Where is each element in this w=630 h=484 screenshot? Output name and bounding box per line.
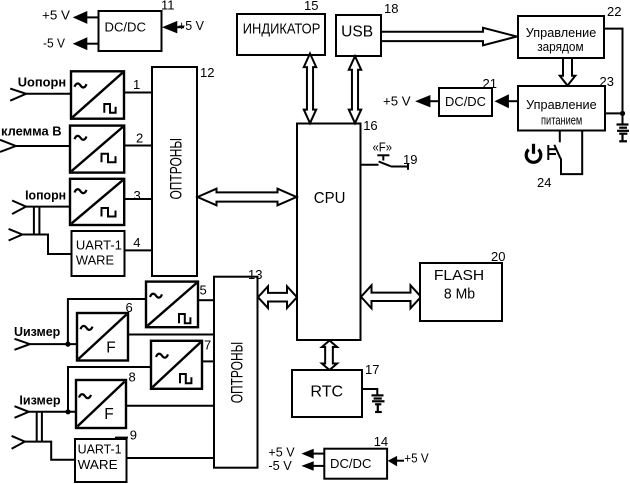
svg-text:DC/DC: DC/DC: [330, 456, 371, 471]
arrow U21 to +5V: [415, 95, 430, 107]
svg-text:21: 21: [483, 76, 497, 91]
svg-text:F: F: [106, 339, 115, 356]
wire Ioporn2 to UART U4: [22, 235, 71, 255]
input arrowhead Iizmer 2: [12, 436, 25, 449]
wire Uoporn to U1: [26, 93, 71, 95]
converter U5 (~ to pulse): [146, 282, 198, 328]
junction node (battery): [620, 111, 625, 116]
svg-text:4: 4: [133, 235, 140, 250]
bus arrow USB-CPU: [349, 56, 361, 123]
input arrowhead Ioporn 2: [9, 229, 23, 241]
svg-text:14: 14: [374, 434, 388, 449]
svg-text:11: 11: [161, 0, 175, 13]
FLASH U20 box: [420, 263, 502, 321]
svg-text:22: 22: [607, 4, 621, 19]
svg-text:20: 20: [491, 249, 505, 264]
converter U8 (~ to F): [76, 380, 126, 428]
wire switch bottom to U23: [561, 131, 582, 175]
svg-text:15: 15: [304, 0, 318, 13]
svg-text:+5 V: +5 V: [42, 7, 70, 22]
converter U6 (~ to F): [77, 313, 128, 361]
wire U23 to U21: [508, 100, 518, 102]
optocouplers U12 box: [152, 67, 197, 276]
hollow arrow U22 to U23: [560, 58, 576, 86]
svg-text:Uопорн: Uопорн: [18, 74, 66, 89]
svg-text:1: 1: [133, 77, 140, 92]
input arrowhead Ioporn 1: [12, 201, 26, 215]
optocouplers U13 box: [214, 277, 258, 468]
svg-text:19: 19: [403, 152, 417, 167]
DC/DC U11 box: [99, 11, 162, 51]
svg-text:5: 5: [200, 282, 207, 297]
svg-text:Iопорн: Iопорн: [25, 188, 66, 203]
wire U6 to optocouplers U13: [128, 334, 214, 336]
svg-text:WARE: WARE: [76, 253, 115, 268]
wire U2 to optocouplers U12: [124, 145, 152, 147]
wire U3 to optocouplers U12: [124, 198, 152, 200]
wire U11 +5V: [87, 16, 100, 18]
svg-text:UART-1: UART-1: [76, 238, 122, 253]
wire U23 to battery node: [605, 112, 623, 114]
svg-text:F: F: [104, 406, 113, 423]
svg-text:ОПТРОНЫ: ОПТРОНЫ: [228, 342, 247, 404]
converter U2 (~ to pulse): [70, 126, 124, 173]
svg-text:17: 17: [365, 362, 379, 377]
svg-text:FLASH: FLASH: [434, 267, 484, 284]
arrow +5V input into U11 right side: [162, 21, 177, 34]
wire Iizmer to U8: [29, 411, 76, 413]
svg-text:UART-1: UART-1: [78, 441, 122, 456]
wire Uizmer to U6: [30, 343, 77, 345]
svg-text:6: 6: [126, 300, 133, 315]
switch SB1 actuator: [548, 145, 556, 160]
svg-text:24: 24: [537, 175, 551, 190]
svg-text:2: 2: [136, 131, 143, 146]
bus arrow indicator-CPU: [304, 54, 316, 124]
wire U22 to battery: [604, 29, 623, 124]
cable pair lines (Iizmer): [36, 412, 38, 442]
indicator U15 box: [237, 14, 325, 55]
wire junction to U7: [68, 367, 151, 412]
F button actuator: [377, 155, 389, 160]
svg-text:8: 8: [129, 370, 136, 385]
svg-text:Управление: Управление: [526, 98, 597, 112]
wire U11 -5V: [87, 43, 100, 45]
svg-text:+5 V: +5 V: [404, 450, 429, 465]
battery GB2: [372, 395, 385, 412]
arrow U23 to U21: [495, 94, 509, 108]
svg-text:WARE: WARE: [78, 457, 118, 472]
input arrowhead klemma B: [0, 140, 16, 152]
bus arrow CPU-FLASH: [361, 285, 421, 308]
svg-text:12: 12: [200, 65, 214, 80]
svg-text:13: 13: [248, 267, 262, 282]
arrow +5V into U14: [388, 456, 397, 467]
CPU U16 box: [297, 124, 361, 341]
wire U8 to optocouplers U13: [126, 405, 214, 407]
wire U23 to switch top: [559, 131, 561, 143]
svg-text:9: 9: [130, 428, 137, 443]
svg-text:питанием: питанием: [541, 113, 582, 127]
wire CPU to F button: [361, 164, 379, 166]
terminal bar (F button): [407, 163, 409, 170]
svg-text:Управление: Управление: [526, 26, 597, 40]
wire RTC to battery GB2: [362, 389, 377, 395]
svg-text:зарядом: зарядом: [537, 40, 583, 54]
bus arrow CPU-RTC: [322, 341, 337, 371]
input arrowhead Uizmer: [15, 339, 30, 350]
svg-text:+5 V: +5 V: [383, 94, 411, 109]
wire U7 to optocouplers U13: [202, 360, 214, 362]
svg-text:16: 16: [363, 118, 377, 133]
svg-text:-5 V: -5 V: [43, 36, 65, 51]
input arrowhead Iizmer 1: [15, 406, 29, 418]
converter U3 (~ to pulse): [70, 179, 124, 225]
converter U1 (~ to pulse): [71, 71, 124, 118]
cable pair lines (Ioporn): [33, 207, 35, 235]
hollow arrow USB to U22: [381, 28, 517, 46]
arrow U14 -5V: [301, 461, 313, 470]
svg-text:RTC: RTC: [310, 384, 343, 401]
svg-text:Iизмер: Iизмер: [19, 393, 60, 408]
svg-text:8 Mb: 8 Mb: [444, 286, 475, 303]
svg-text:ИНДИКАТОР: ИНДИКАТОР: [243, 21, 320, 38]
bus arrow U13-CPU: [258, 286, 297, 308]
svg-text:DC/DC: DC/DC: [105, 20, 146, 35]
wire +5V into U14: [397, 460, 405, 462]
wire junction to U5: [68, 299, 146, 344]
svg-text:23: 23: [600, 74, 614, 89]
arrow -5V left (U11): [73, 37, 88, 50]
input arrowhead Uoporn: [10, 89, 26, 101]
wire U14 +5V: [313, 453, 324, 455]
DC/DC U14 box: [324, 449, 387, 479]
wire Ioporn to U3: [26, 206, 70, 208]
wire U4 to optocouplers U12: [125, 249, 153, 251]
svg-text:3: 3: [134, 188, 141, 203]
svg-text:клемма В: клемма В: [1, 123, 62, 138]
svg-text:ОПТРОНЫ: ОПТРОНЫ: [167, 138, 186, 200]
charge control U22 box: [518, 16, 604, 58]
wire F button right terminal: [391, 166, 408, 168]
svg-text:«F»: «F»: [373, 139, 393, 154]
wire U14 -5V: [313, 465, 324, 467]
switch SB1 lever: [554, 145, 560, 159]
wire U21 to +5V: [430, 100, 440, 102]
svg-text:-5 V: -5 V: [268, 458, 292, 473]
svg-text:+5 V: +5 V: [178, 18, 204, 33]
DC/DC U21 box: [439, 88, 492, 116]
RTC U17 box: [292, 370, 362, 417]
bus arrow U12-CPU: [198, 189, 297, 206]
USB U18 box: [336, 15, 381, 56]
wire U5 to optocouplers U13: [198, 299, 214, 301]
svg-text:18: 18: [384, 1, 398, 16]
svg-text:DC/DC: DC/DC: [445, 95, 486, 109]
F button lever: [379, 162, 391, 167]
power control U23 box: [518, 86, 605, 131]
wire U9 to optocouplers U13: [127, 457, 215, 459]
junction node (Uizmer): [65, 342, 70, 347]
arrow +5V left (U11): [73, 11, 88, 24]
UART-1 WARE U4 box: [72, 231, 125, 276]
battery GB1: [617, 125, 630, 142]
wire klemma B to U2: [16, 145, 70, 147]
svg-text:Uизмер: Uизмер: [14, 324, 60, 339]
wire U1 to optocouplers U12: [124, 92, 152, 94]
svg-text:CPU: CPU: [314, 190, 346, 207]
svg-text:USB: USB: [341, 24, 373, 41]
junction node (Iizmer): [65, 409, 70, 414]
power icon (on/off): [526, 144, 541, 163]
UART-1 WARE U9 box: [75, 439, 127, 482]
label 9 leader: [115, 436, 128, 438]
converter U7 (~ to pulse): [151, 341, 202, 389]
svg-text:7: 7: [204, 337, 211, 352]
wire Iizmer2 to UART U9: [25, 442, 75, 460]
arrow U14 +5V: [301, 449, 313, 459]
